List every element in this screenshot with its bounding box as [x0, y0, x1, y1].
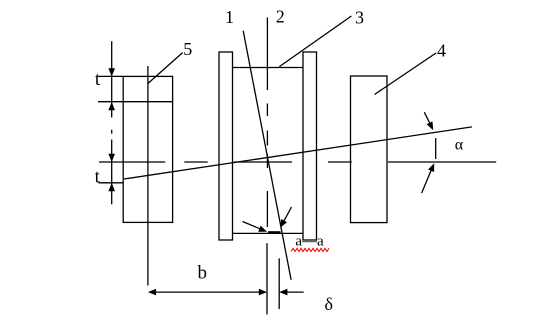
- svg-text:α: α: [455, 137, 464, 154]
- svg-text:a—a: a—a: [295, 234, 324, 250]
- disk 5 centerline vertical: [147, 66, 149, 286]
- alpha arrow 1 shaft: [424, 112, 432, 127]
- svg-text:4: 4: [437, 40, 446, 60]
- arrowhead t upper down: [108, 68, 115, 76]
- delta right boundary line: [278, 258, 280, 309]
- axis 2 lower extension line: [266, 243, 268, 314]
- svg-text:δ: δ: [324, 294, 332, 314]
- dimension t upper shaft: [111, 41, 113, 101]
- horizontal axis (dash-dot centerline): [99, 161, 496, 163]
- dimension b line: [154, 291, 261, 293]
- dimension t lower shaft tail: [111, 183, 113, 204]
- svg-text:b: b: [197, 263, 207, 284]
- svg-text:5: 5: [183, 39, 192, 59]
- section a-a arrow left shaft: [243, 222, 261, 229]
- dimension t connector shaft (dash-dot): [111, 102, 113, 133]
- arrowhead t upper up: [108, 102, 115, 110]
- disk 2 bottom edge: [233, 232, 304, 234]
- leader line 4: [375, 53, 437, 95]
- disk 5 outline: [123, 76, 172, 222]
- flange plate left (part 1 region): [219, 52, 233, 240]
- arrowhead alpha lower: [428, 163, 434, 172]
- arrowhead b left: [148, 289, 156, 296]
- arrowhead section a-a right: [280, 219, 287, 228]
- spellcheck squiggle: [291, 248, 329, 251]
- alpha angle tick: [435, 138, 437, 159]
- gear 4 outline: [351, 76, 388, 223]
- svg-text:3: 3: [355, 7, 364, 27]
- arrowhead t lower up: [108, 183, 115, 191]
- arrowhead b right: [259, 289, 267, 296]
- arrowhead section a-a left: [258, 226, 267, 232]
- dimension t lower shaft: [111, 140, 113, 184]
- disk 5 top edge extension line: [98, 75, 123, 77]
- dimension delta arrow shaft: [285, 291, 304, 293]
- axis 2 vertical centerline top: [266, 17, 268, 90]
- inclined line 1 (steep): [243, 31, 291, 280]
- axis 2 vertical centerline dashes: [266, 104, 268, 228]
- disk 5 rim line t (upper): [98, 101, 172, 103]
- arrowhead delta left: [279, 289, 287, 296]
- section a-a arrow right shaft: [284, 207, 292, 221]
- svg-text:t: t: [95, 166, 101, 187]
- flange plate right: [303, 52, 317, 240]
- leader line 3: [279, 16, 351, 67]
- leader line 5: [148, 53, 183, 84]
- svg-text:t: t: [95, 69, 101, 90]
- disk 2 top edge: [233, 67, 304, 69]
- disk 5 lower t extension line: [99, 182, 124, 184]
- arrowhead alpha upper: [427, 121, 434, 130]
- alpha arrow 2 shaft: [422, 166, 433, 193]
- arrowhead t lower down: [108, 154, 115, 162]
- section mark bold segment: [268, 231, 281, 234]
- svg-text:1: 1: [225, 7, 234, 27]
- inclined axis line (skewed): [124, 127, 472, 179]
- svg-text:2: 2: [276, 7, 285, 27]
